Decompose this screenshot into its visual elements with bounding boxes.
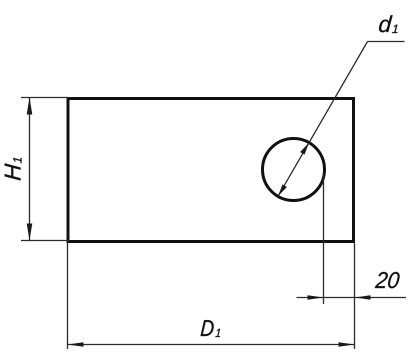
H1 arrow up [27,98,33,115]
D1 left extension line [67,243,69,349]
D1 left arrow [68,342,84,347]
D1 dimension line [68,344,355,346]
d1 leader shoulder [368,41,405,43]
20 dimension line [297,297,407,299]
20 left arrow (outside, pointing right) [308,295,324,300]
label H1 [5,158,22,181]
H1 top extension line [21,97,69,99]
d1 diameter arrow lower (pointing down-left) [278,184,287,196]
label 20 [375,272,400,288]
d1 diameter line through hole [278,143,309,197]
H1 dimension line [29,98,31,241]
20 right arrow (outside, pointing left) [355,295,371,300]
20 left extension line [323,173,325,304]
plate outline [68,99,354,242]
H1 bottom extension line [21,240,69,242]
hole circle d1 [263,139,325,201]
d1 leader diagonal [309,42,368,143]
label d1 [379,15,397,33]
D1 / 20 right extension line [354,243,356,349]
H1 arrow down [27,224,33,241]
d1 diameter arrow upper (pointing up-right) [300,143,309,155]
D1 right arrow [339,342,355,347]
label D1 [201,320,220,337]
